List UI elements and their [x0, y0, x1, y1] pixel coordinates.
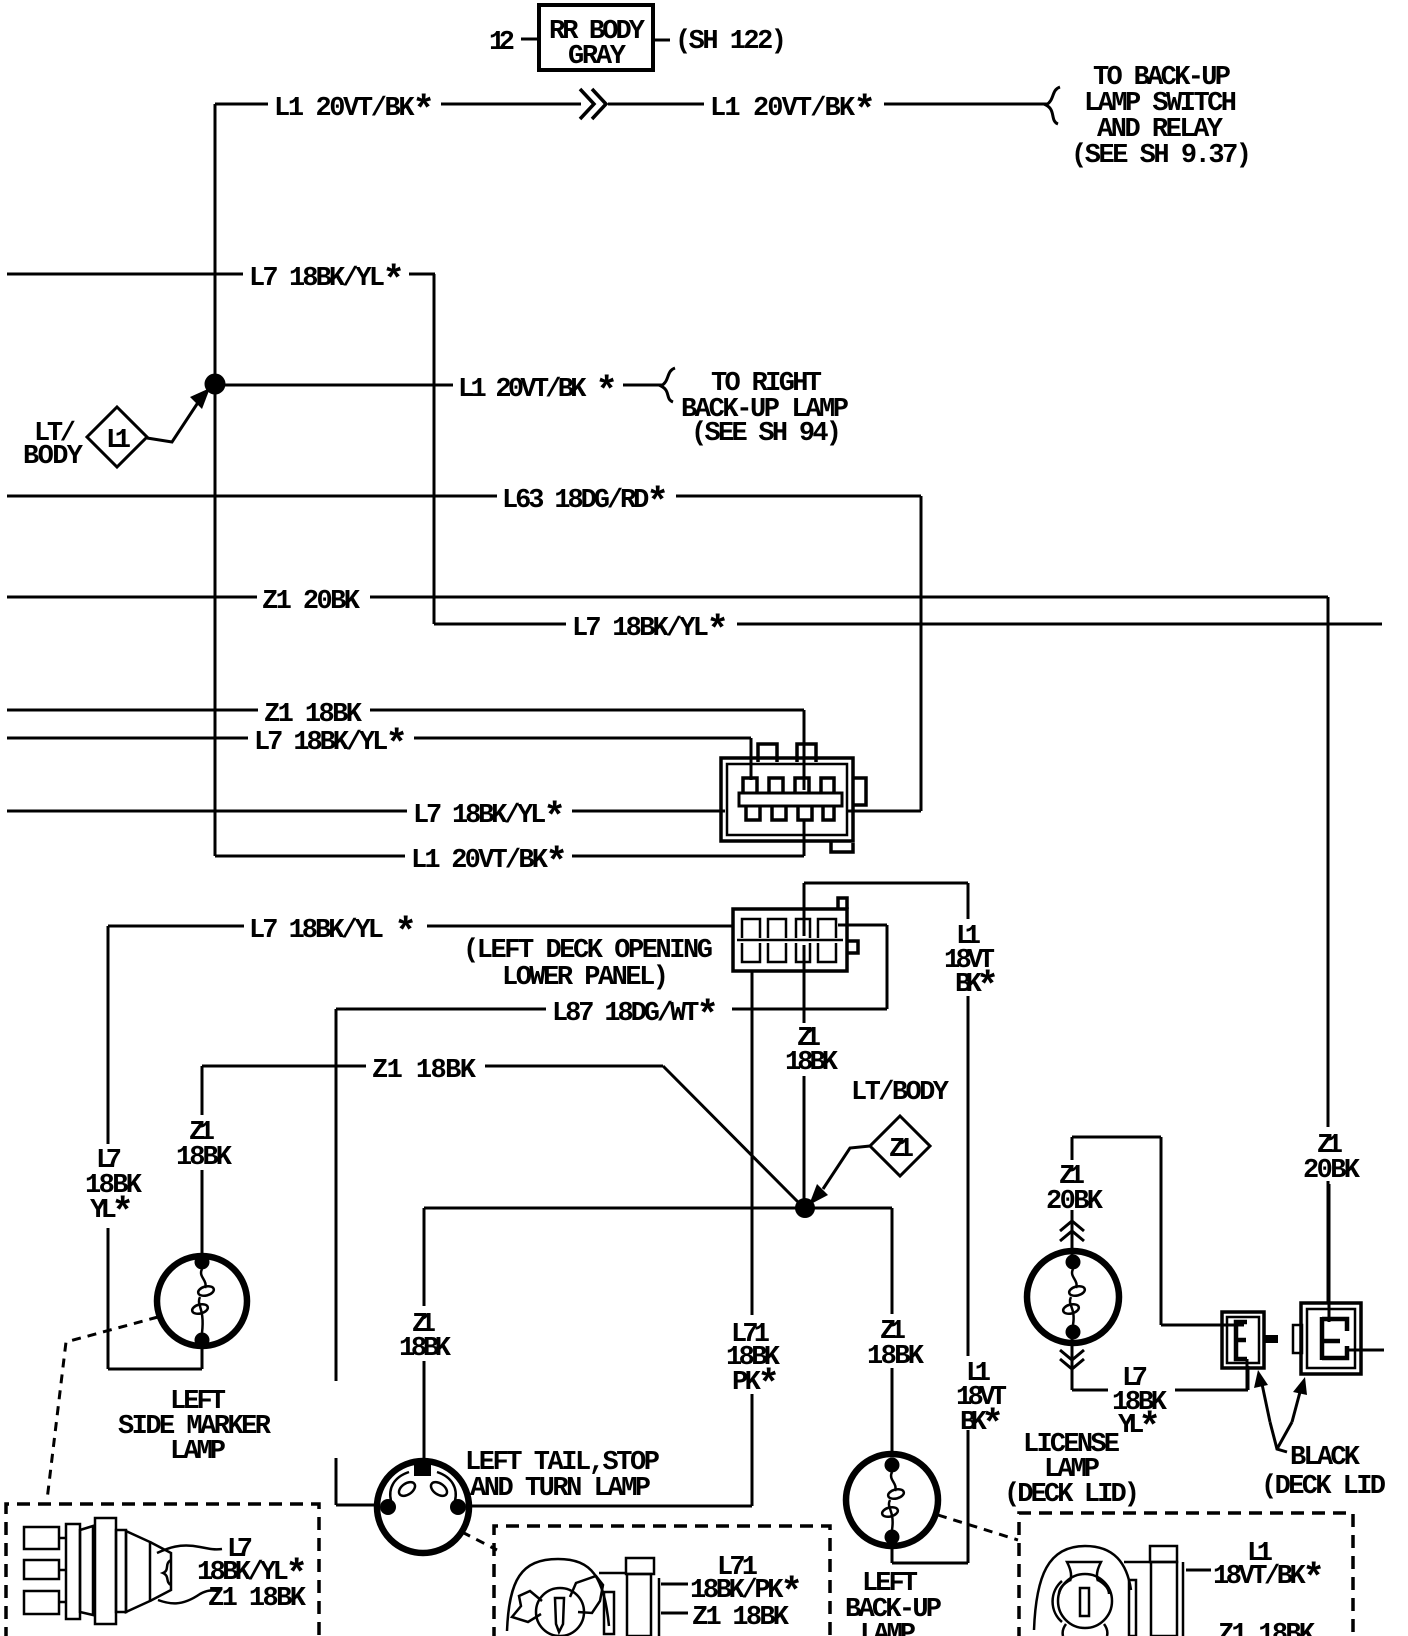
connector C1 (deck opening panel, 4-way)	[721, 744, 866, 852]
connector diamond Z1 LT/BODY	[870, 1116, 930, 1176]
label L7 18BK/YL* / Z1 18BK (side marker socket)	[197, 1535, 308, 1614]
label Z1 18BK (above side marker)	[176, 1118, 233, 1173]
socket: back-up lamp bulb holder (rear view)	[1034, 1546, 1211, 1636]
label L7 18BK/YL* (second)	[572, 610, 729, 653]
svg-text:LT/BODY: LT/BODY	[851, 1078, 950, 1108]
label Z1 18BK (row)	[264, 700, 363, 730]
lamp: left tail stop turn	[377, 1461, 469, 1553]
label (SH 122)	[675, 27, 787, 57]
wire main left vertical L1	[214, 104, 217, 856]
label BLACK (DECK LID	[1261, 1443, 1386, 1502]
wire SC2 top pin	[1328, 1184, 1331, 1322]
break chevrons up (license)	[1060, 1221, 1084, 1241]
label L1 20VT/BK* (right)	[710, 90, 876, 133]
dashed box: back-up lamp socket	[1019, 1513, 1353, 1636]
svg-text:18BK: 18BK	[176, 1143, 233, 1173]
wire L1 20VT/BK* lower horizontal	[215, 855, 804, 858]
socket: tail lamp bulb holder (rear view)	[507, 1558, 688, 1636]
wire side marker bottom return	[108, 1343, 202, 1369]
svg-text:LAMP: LAMP	[860, 1620, 916, 1636]
wire L1 18VT right vertical	[967, 996, 970, 1563]
wire Z1 20BK right vertical	[1327, 597, 1330, 1304]
wire license Z1 20BK upper run	[1072, 1137, 1244, 1325]
wire side marker top vertical	[201, 1066, 204, 1258]
label LICENSE LAMP (DECK LID)	[1004, 1430, 1140, 1510]
label (LEFT DECK OPENING LOWER PANEL)	[463, 936, 713, 993]
wire L1 18VT/BK* top run	[804, 883, 968, 936]
label Z1 18BK (tail lamp)	[399, 1310, 452, 1364]
svg-text:Z1 18BK: Z1 18BK	[264, 700, 363, 730]
wire Z1 18BK horizontal	[7, 709, 804, 712]
wire L87 into tail lamp	[336, 1504, 380, 1507]
svg-text:LOWER PANEL): LOWER PANEL)	[502, 963, 669, 993]
svg-text:18BK: 18BK	[867, 1342, 925, 1372]
dashed leader tail lamp to socket box	[462, 1532, 497, 1550]
lamp: left side marker	[157, 1255, 247, 1348]
wire L71 into tail lamp	[466, 1505, 752, 1508]
label LT/BODY (left)	[23, 419, 84, 472]
wire L1 20VT/BK* top horizontal	[215, 103, 1048, 106]
label LEFT TAIL,STOP AND TURN LAMP	[465, 1448, 660, 1504]
lamp: left back-up	[846, 1454, 938, 1546]
wire L63 18DG/RD* horizontal	[7, 495, 921, 498]
svg-text:(SEE SH 94): (SEE SH 94)	[691, 419, 842, 449]
label L7 18BK/YL * (to C2)	[249, 912, 417, 955]
wire SC1 bottom pin	[1246, 1359, 1249, 1390]
svg-text:(DECK LID: (DECK LID	[1261, 1472, 1386, 1502]
wire L7 drop to C1	[750, 738, 753, 780]
dashed leader side marker to socket box	[47, 1317, 158, 1500]
label L87 18DG/WT*	[552, 995, 719, 1038]
wire back-up return corner	[892, 1562, 968, 1565]
dashed box: tail lamp socket	[494, 1526, 830, 1636]
wire L7 18BK/YL* lower horizontal	[7, 810, 921, 813]
svg-text:Z1 20BK: Z1 20BK	[262, 587, 361, 617]
svg-text:Z1 18BK: Z1 18BK	[692, 1603, 790, 1633]
label L1 20VT/BK* (lower)	[411, 842, 568, 885]
svg-text:BLACK: BLACK	[1290, 1443, 1361, 1473]
wire L87 left vertical	[335, 1009, 338, 1505]
splice box RR BODY GRAY	[539, 5, 653, 72]
wire Z1 18BK from side marker	[202, 1066, 799, 1203]
svg-text:BODY: BODY	[23, 442, 84, 472]
wire Z1 to tail lamp vertical	[423, 1208, 426, 1462]
wire back-up lamp bottom return	[891, 1540, 894, 1563]
connector diamond L1 LT/BODY	[87, 407, 147, 467]
label Z1 20BK (top)	[262, 587, 361, 617]
svg-text:20BK: 20BK	[1046, 1187, 1104, 1217]
wire Z1 to back-up lamp vertical	[891, 1208, 894, 1456]
label Z1 20BK (far right)	[1303, 1131, 1361, 1186]
svg-text:GRAY: GRAY	[568, 42, 627, 72]
wire dash to RR BODY box	[521, 38, 538, 41]
connector SC1 (license lamp side)	[1222, 1312, 1278, 1368]
svg-text:LAMP: LAMP	[170, 1437, 226, 1467]
dashed leader back-up lamp to socket box	[938, 1515, 1018, 1540]
svg-text:Z1: Z1	[889, 1135, 914, 1165]
label LEFT BACK-UP LAMP	[845, 1569, 942, 1636]
label L1 18VT BK* (lower)	[956, 1359, 1007, 1447]
label L7 18BK/YL* (third)	[254, 724, 408, 767]
wire C1 bottom pin	[803, 820, 806, 856]
arrows to BLACK connectors	[1254, 1370, 1307, 1452]
wire L7 18BK/YL* to C2	[108, 925, 733, 928]
svg-text:18BK: 18BK	[399, 1334, 452, 1364]
harness brace to back-up lamp switch	[1046, 87, 1060, 124]
label Z1 18BK (back-up lamp)	[867, 1317, 925, 1372]
wire Z1 splice horizontal	[424, 1207, 892, 1210]
wire vertical L7 branch	[433, 274, 436, 624]
connector SC2 (deck lid harness, black)	[1293, 1303, 1361, 1374]
svg-text:12: 12	[489, 28, 515, 58]
svg-text:AND TURN LAMP: AND TURN LAMP	[470, 1474, 651, 1504]
label Z1 18BK (side marker run)	[372, 1056, 477, 1086]
label L1 18VT BK* (upper)	[944, 922, 999, 1009]
label LEFT SIDE MARKER LAMP	[118, 1387, 272, 1467]
label TO BACK-UP LAMP SWITCH AND RELAY (SEE SH 9.37)	[1071, 63, 1252, 171]
label L7 18BK/YL* (lower)	[413, 797, 566, 840]
wire L1 20VT/BK to right back-up lamp	[224, 384, 662, 387]
node 12 label	[489, 28, 515, 58]
svg-text:(DECK LID): (DECK LID)	[1004, 1480, 1140, 1510]
wire L87 18DG/WT* run	[336, 925, 887, 1009]
wire license lamp bottom L7 run	[1072, 1335, 1248, 1390]
wire SC2 right stub	[1345, 1349, 1384, 1352]
label Z1 20BK (license)	[1046, 1162, 1104, 1217]
svg-text:Z1 18BK: Z1 18BK	[1218, 1620, 1316, 1636]
socket: side marker bulb holder	[24, 1518, 222, 1624]
wire C2 through vertical (Z1)	[803, 945, 806, 1200]
svg-text:L1: L1	[106, 426, 131, 456]
junction dot Z1 splice	[795, 1198, 815, 1218]
wire vertical L63 branch	[920, 496, 923, 811]
label L71 18BK/PK* / Z1 18BK (tail lamp socket)	[690, 1553, 803, 1633]
wire L7 18BK/YL* second horizontal	[434, 623, 1382, 626]
junction dot L1 splice	[205, 374, 226, 395]
label L63 18DG/RD*	[502, 482, 669, 525]
label L71 18BK PK*	[726, 1320, 781, 1407]
svg-text:18BK: 18BK	[785, 1048, 839, 1078]
dashed box: side marker socket	[6, 1504, 319, 1636]
wire Z1 18BK drop to C1	[803, 710, 806, 790]
arrow from L1 diamond to splice	[147, 388, 210, 442]
label TO RIGHT BACK-UP LAMP (SEE SH 94)	[681, 369, 849, 449]
wire dash from RR BODY box	[654, 39, 670, 42]
label LT/BODY (right)	[851, 1078, 950, 1108]
wire L7 18BK/YL* first horizontal	[7, 273, 435, 276]
svg-text:(SEE SH 9.37): (SEE SH 9.37)	[1071, 141, 1252, 171]
svg-text:(SH 122): (SH 122)	[675, 27, 787, 57]
break chevrons down (license)	[1060, 1350, 1084, 1369]
harness brace to right back-up lamp	[661, 368, 675, 402]
label L7 18BK YL* (license)	[1112, 1364, 1168, 1450]
label L1 18VT/BK* / Z1 18BK (back-up socket)	[1213, 1539, 1325, 1636]
svg-text:20BK: 20BK	[1303, 1156, 1361, 1186]
connector C2 (left deck opening lower panel)	[733, 898, 858, 971]
arrow from Z1 diamond to splice	[809, 1146, 870, 1205]
wire L7 to side marker vertical	[107, 926, 110, 1369]
label L7 18BK/YL* (top)	[249, 260, 405, 303]
lamp: license	[1027, 1251, 1119, 1343]
label Z1 18BK (below C2)	[785, 1024, 839, 1078]
svg-text:Z1 18BK: Z1 18BK	[372, 1056, 477, 1086]
label L1 20VT/BK* (left)	[274, 90, 435, 133]
label L1 20VT/BK * (middle)	[458, 371, 618, 414]
wire L71 vertical	[751, 971, 754, 1506]
wire Z1 20BK horizontal	[7, 596, 1328, 599]
svg-text:(LEFT DECK OPENING: (LEFT DECK OPENING	[463, 936, 713, 966]
label L7 18BK YL* (side marker)	[85, 1146, 143, 1235]
in-line connector chevrons on L1 wire	[580, 89, 606, 119]
wire L7 18BK/YL* third horizontal	[7, 737, 751, 740]
svg-text:Z1 18BK: Z1 18BK	[208, 1584, 307, 1614]
